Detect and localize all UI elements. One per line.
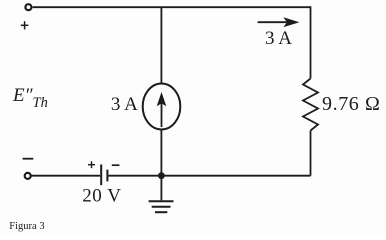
- svg-text:20 V: 20 V: [82, 186, 121, 207]
- svg-text:9.76 Ω: 9.76 Ω: [322, 93, 380, 115]
- svg-text:3 A: 3 A: [111, 94, 138, 115]
- svg-text:Figura 3: Figura 3: [9, 221, 44, 232]
- svg-text:3 A: 3 A: [265, 28, 292, 49]
- svg-text:E″Th: E″Th: [12, 85, 48, 111]
